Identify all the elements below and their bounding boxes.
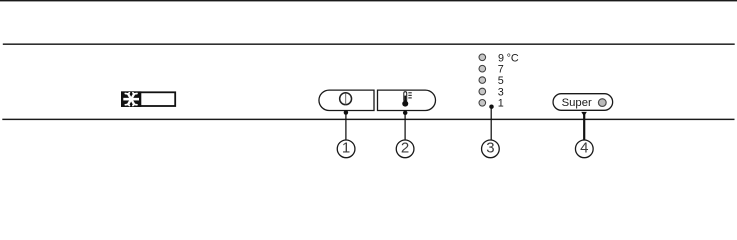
prongs upper-left arm — [128, 93, 129, 94]
callout circle 1 — [337, 140, 355, 158]
svg-text:1: 1 — [342, 140, 350, 157]
callout dot 2 — [403, 111, 408, 116]
callout line 2 — [404, 112, 406, 140]
svg-text:Super: Super — [562, 97, 592, 109]
callout dot 3 — [489, 104, 494, 109]
temperature labels — [498, 52, 519, 109]
prongs upper-right arm — [133, 93, 134, 94]
svg-text:3: 3 — [486, 140, 494, 157]
svg-text:3: 3 — [498, 86, 504, 98]
LED 9C — [479, 54, 486, 61]
callout line 1 — [345, 112, 347, 140]
panel top edge line — [0, 0, 737, 1]
temperature LED column — [479, 54, 486, 106]
LED 7 — [479, 65, 486, 72]
prongs lower-left arm — [128, 104, 129, 105]
callout line 4 — [583, 112, 585, 140]
callout circle 4 — [575, 140, 593, 158]
callout dot 1 — [344, 110, 349, 115]
svg-text:5: 5 — [498, 75, 504, 87]
power symbol bar — [345, 93, 347, 104]
freezer snowflake — [123, 93, 139, 106]
LED 1 — [479, 100, 486, 107]
Super LED — [598, 99, 606, 107]
svg-text:7: 7 — [498, 64, 504, 76]
thermostat button — [378, 90, 436, 110]
svg-text:°C: °C — [507, 52, 519, 64]
LED 3 — [479, 88, 486, 95]
LED 5 — [479, 77, 486, 84]
Super button — [553, 94, 613, 111]
panel upper line — [3, 43, 735, 44]
power button (on/off) — [319, 90, 374, 110]
thermometer icon — [402, 92, 412, 107]
callout circle 3 — [482, 140, 500, 158]
panel lower line — [2, 119, 734, 120]
callout line 3 — [490, 107, 492, 140]
svg-text:9: 9 — [498, 52, 504, 64]
power symbol circle — [340, 93, 352, 105]
svg-text:4: 4 — [580, 140, 588, 157]
callout dot 4 — [581, 112, 587, 116]
callout circle 2 — [396, 140, 414, 158]
svg-text:2: 2 — [401, 140, 409, 157]
freezer symbol box — [121, 91, 175, 107]
svg-text:1: 1 — [498, 98, 504, 110]
prongs lower-right arm — [133, 104, 134, 105]
